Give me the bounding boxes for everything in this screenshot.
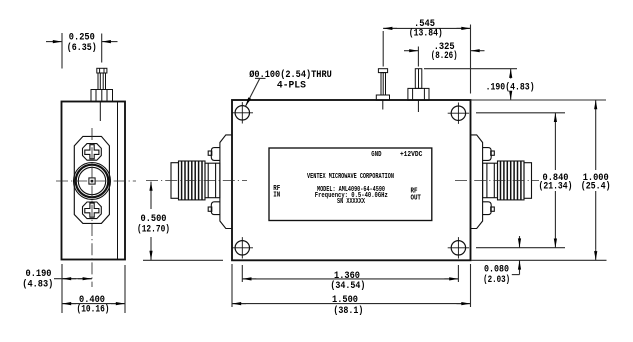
svg-text:OUT: OUT	[410, 195, 421, 203]
svg-text:Ø0.100(2.54)THRU: Ø0.100(2.54)THRU	[249, 69, 332, 81]
svg-text:4-PLS: 4-PLS	[277, 81, 306, 92]
svg-text:(34.54): (34.54)	[330, 280, 365, 292]
svg-text:.190(4.83): .190(4.83)	[486, 81, 535, 93]
svg-text:(13.84): (13.84)	[409, 28, 443, 40]
svg-text:0.500: 0.500	[141, 214, 167, 225]
svg-text:(10.16): (10.16)	[77, 304, 110, 316]
svg-text:IN: IN	[273, 192, 280, 200]
svg-text:(25.4): (25.4)	[581, 180, 611, 192]
svg-text:(21.34): (21.34)	[539, 180, 573, 192]
svg-text:1.500: 1.500	[332, 295, 358, 306]
svg-text:SN XXXXXX: SN XXXXXX	[337, 198, 366, 206]
svg-text:(2.03): (2.03)	[483, 274, 510, 286]
svg-text:(6.35): (6.35)	[67, 42, 97, 54]
svg-text:VENTEX MICROWAVE CORPORATION: VENTEX MICROWAVE CORPORATION	[307, 173, 394, 181]
svg-text:(12.70): (12.70)	[137, 224, 170, 236]
svg-text:(4.83): (4.83)	[22, 279, 53, 291]
svg-text:(8.26): (8.26)	[431, 50, 458, 62]
svg-text:(38.1): (38.1)	[333, 305, 363, 317]
svg-text:+12VDC: +12VDC	[400, 151, 423, 159]
svg-text:0.190: 0.190	[26, 269, 52, 280]
svg-text:0.250: 0.250	[69, 33, 95, 44]
svg-text:GND: GND	[371, 151, 381, 159]
svg-text:0.080: 0.080	[484, 265, 509, 276]
